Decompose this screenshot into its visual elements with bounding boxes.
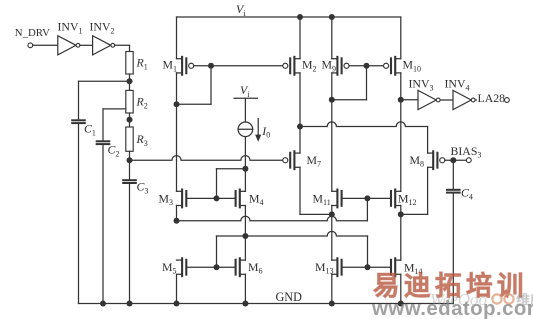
junction M11-M12 gate node: [364, 195, 370, 201]
label GND: [276, 290, 303, 304]
junction I0-M4 drain: [242, 166, 248, 172]
wire M6 source to rail: [244, 274, 246, 303]
transistor M4: [236, 190, 246, 208]
junction M14-ground: [398, 301, 404, 307]
wire C2 to ground rail: [102, 144, 104, 303]
label M4: [249, 191, 264, 207]
wire M3 node to M11 gate riser: [177, 198, 368, 220]
transistor M10: [384, 57, 401, 75]
wire M10 drain to M12 drain: [400, 73, 402, 191]
label INV1: [58, 20, 83, 36]
wire M13 gate to M14 gate: [342, 266, 391, 268]
resistor R2: [126, 90, 133, 113]
label C3: [137, 180, 149, 196]
junction rail-M9: [329, 14, 335, 20]
label M5: [162, 260, 177, 276]
svg-text:M5: M5: [162, 260, 177, 276]
transistor M2: [283, 57, 300, 75]
svg-text:Vi: Vi: [236, 2, 246, 18]
supply rail Vi: [177, 16, 401, 18]
inverter INV2: [93, 36, 115, 55]
capacitor C2: [97, 141, 110, 144]
junction C3-ground: [127, 301, 133, 307]
wire mirror node left: [217, 169, 246, 199]
label M8: [410, 153, 425, 169]
output terminal LA28: [505, 98, 510, 103]
svg-text:M6: M6: [248, 260, 263, 276]
wire C4 to ground rail: [452, 193, 454, 304]
watermark weeqoo: [430, 290, 533, 309]
watermark chinese: [373, 271, 528, 301]
label R2: [136, 95, 148, 111]
junction M9-M10 gate node: [364, 63, 370, 69]
wire M5 gate to M6 gate: [186, 266, 235, 268]
transistor M1: [177, 57, 194, 75]
wire C3 top: [129, 160, 131, 180]
wire R1 to node A: [129, 74, 131, 81]
svg-text:C2: C2: [108, 143, 120, 159]
junction BIAS3-C4: [450, 157, 456, 163]
capacitor C3: [123, 180, 136, 183]
wire M4 drain: [244, 169, 246, 192]
svg-text:M1: M1: [163, 58, 178, 74]
wire I0 to mirror node: [244, 137, 246, 169]
wire M13 source to rail: [331, 274, 333, 303]
label INV4: [445, 77, 470, 93]
junction M3-M4 gate node: [214, 195, 220, 201]
terminal BIAS3: [466, 158, 471, 163]
label I0: [261, 124, 270, 140]
svg-text:M3: M3: [159, 191, 174, 207]
wire M2 drain to M7 drain: [299, 73, 301, 153]
junction M9 drain node: [329, 97, 335, 103]
ground rail GND: [79, 303, 454, 305]
junction M5-ground: [174, 301, 180, 307]
wire C4 top: [452, 160, 454, 190]
wire node A to C1: [79, 80, 130, 82]
label M2: [302, 58, 317, 74]
resistor R1: [126, 52, 133, 75]
wire M3 gate to M4 gate: [186, 197, 235, 199]
label M12: [398, 191, 417, 207]
junction rail-M2: [297, 14, 303, 20]
junction M6-ground: [242, 301, 248, 307]
label INV3: [409, 77, 434, 93]
wire gate node down: [332, 66, 367, 100]
wire M9 drain to M11 drain: [331, 73, 333, 191]
junction M8 source-M12 source: [398, 211, 404, 217]
wire node A to R2: [129, 81, 131, 90]
svg-text:INV4: INV4: [445, 77, 470, 93]
wire M1 drain to M3 drain: [176, 73, 178, 191]
inverter INV3: [418, 90, 440, 109]
junction C2-ground: [100, 301, 106, 307]
wire R2 to node B: [129, 113, 131, 120]
label BIAS3: [451, 144, 482, 160]
wire node C to M7 gate: [130, 156, 283, 161]
wire M10 drain to INV3: [401, 99, 418, 101]
svg-text:Vi: Vi: [240, 83, 250, 99]
junction M10 drain node: [398, 97, 404, 103]
watermark url: [371, 297, 533, 319]
svg-text:M10: M10: [403, 58, 422, 74]
svg-text:GND: GND: [276, 290, 303, 304]
wire R3 to node C: [129, 151, 131, 160]
wire M3 source down: [176, 206, 178, 221]
label N_DRV: [15, 27, 50, 39]
junction M5-M6 gate node: [214, 264, 220, 270]
label M7: [307, 153, 322, 169]
transistor M14: [391, 258, 401, 276]
label M11: [313, 191, 331, 207]
wire node B to R3: [129, 120, 131, 127]
transistor M9: [332, 57, 349, 75]
svg-text:M2: M2: [302, 58, 317, 74]
transistor M3: [177, 190, 187, 208]
arrow I0 direction: [255, 119, 261, 142]
svg-text:LA28: LA28: [478, 91, 506, 105]
wire INV1 to INV2: [80, 44, 93, 46]
current source I0: [238, 122, 253, 137]
svg-text:M7: M7: [307, 153, 322, 169]
node B (R2-R3): [127, 117, 133, 123]
label C2: [108, 143, 120, 159]
inverter INV1: [58, 36, 80, 55]
label M13: [315, 260, 334, 276]
wire M11 gate to M12 gate: [342, 197, 391, 199]
junction M13-ground: [329, 301, 335, 307]
wire M4 source down: [244, 206, 246, 237]
label C1: [84, 122, 96, 138]
label Vi (top rail): [236, 2, 246, 18]
transistor M13: [332, 258, 342, 276]
svg-text:M13: M13: [315, 260, 334, 276]
svg-text:M8: M8: [410, 153, 425, 169]
svg-text:M11: M11: [313, 191, 331, 207]
wire M8 source down: [401, 167, 428, 214]
wire row B: [217, 231, 368, 267]
label M14: [404, 260, 423, 276]
junction M2-M7 drain node: [297, 124, 303, 130]
wire rail to M9: [331, 17, 333, 59]
wire N_DRV to INV1: [33, 44, 58, 46]
label M6: [248, 260, 263, 276]
wire M8 gate to BIAS3: [445, 159, 467, 161]
capacitor C1: [72, 120, 85, 123]
wire C1 top: [78, 81, 80, 120]
label M3: [159, 191, 174, 207]
input terminal N_DRV: [28, 43, 33, 48]
label R1: [136, 56, 148, 72]
inverter INV4: [453, 90, 475, 109]
label C4: [461, 186, 473, 202]
svg-text:C3: C3: [137, 180, 149, 196]
wire M1 gate to M2 gate: [194, 65, 283, 67]
junction M4-M6 drains: [242, 233, 248, 239]
svg-text:INV3: INV3: [409, 77, 434, 93]
wire M6 drain up: [244, 236, 246, 260]
node A (R1-R2, C1): [127, 78, 133, 84]
junction M3 drain row wire: [174, 218, 180, 224]
transistor M11: [332, 190, 342, 208]
wire INV4 to LA28 terminal: [475, 99, 504, 101]
label M10: [403, 58, 422, 74]
svg-text:BIAS3: BIAS3: [451, 144, 482, 160]
svg-text:C1: C1: [84, 122, 96, 138]
wire M11 source to M13 drain: [331, 206, 333, 261]
wire C2 top: [102, 109, 104, 141]
wire M7 source down: [300, 167, 332, 214]
svg-text:www.edatop.com: www.edatop.com: [371, 297, 533, 319]
wire M9 gate to M10 gate: [349, 65, 383, 67]
wire M1 gate feedback: [177, 66, 212, 104]
svg-text:I0: I0: [261, 124, 270, 140]
label INV2: [90, 20, 115, 36]
wire C2 to R2 bottom node: [103, 108, 126, 110]
transistor M8: [428, 151, 445, 169]
wire rail to M2: [299, 17, 301, 59]
wire INV3 to INV4: [440, 99, 453, 101]
resistor R3: [126, 127, 133, 151]
label M9: [322, 58, 337, 74]
svg-text:N_DRV: N_DRV: [15, 27, 50, 39]
svg-text:C4: C4: [461, 186, 473, 202]
svg-text:M12: M12: [398, 191, 417, 207]
svg-text:INV2: INV2: [90, 20, 115, 36]
junction M1 gate node: [208, 63, 214, 69]
wire C3 to ground rail: [129, 183, 131, 304]
transistor M12: [391, 190, 401, 208]
label LA28: [477, 91, 505, 105]
svg-text:R1: R1: [136, 56, 148, 72]
transistor M6: [236, 258, 246, 276]
wire M12 source to M14 drain: [400, 206, 402, 261]
svg-text:R2: R2: [136, 95, 148, 111]
wire rail to M10: [400, 17, 402, 59]
transistor M7: [283, 151, 300, 169]
wire M5-M6 gate riser: [216, 236, 218, 267]
junction M7 source-M11 source: [329, 211, 335, 217]
wire M14 source to rail: [400, 274, 402, 303]
label Vi (current source): [240, 83, 250, 99]
transistor M5: [177, 258, 187, 276]
wire Vi bar to I0: [244, 98, 246, 122]
label R3: [136, 132, 148, 148]
label M1: [163, 58, 178, 74]
wire M5 source to rail: [176, 274, 178, 303]
junction M1 drain: [174, 101, 180, 107]
svg-text:R3: R3: [136, 132, 148, 148]
wire rail to M1: [176, 17, 178, 59]
wire drain node to M8: [300, 122, 428, 153]
capacitor C4: [447, 190, 460, 193]
node C (R3-C3): [127, 157, 133, 163]
wire C1 to ground rail: [78, 123, 80, 303]
svg-text:M9: M9: [322, 58, 337, 74]
wire INV2 to R1: [115, 45, 130, 51]
svg-text:INV1: INV1: [58, 20, 83, 36]
svg-text:M4: M4: [249, 191, 264, 207]
junction M13-M14 gate node: [365, 264, 371, 270]
supply Vi bar: [234, 97, 257, 99]
